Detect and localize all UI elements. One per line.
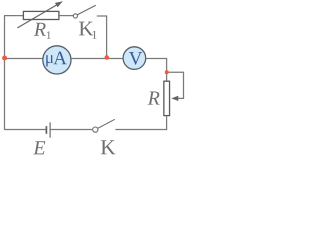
switch K terminal circle <box>93 127 98 132</box>
wire: rheostat wiper loop <box>167 72 184 98</box>
switch K lever <box>98 119 115 128</box>
wire: R1 box to switch K1 <box>60 15 74 17</box>
resistor R1 box <box>23 11 59 19</box>
wire: voltmeter to right corner, down to rheostat node <box>146 59 167 73</box>
battery E short plate <box>45 126 47 134</box>
wire: resistor R bottom to bottom-right corner and left to switch K <box>115 116 166 129</box>
wire: top from left corner to R1 box <box>4 15 23 17</box>
meter uA circle <box>43 46 71 74</box>
meter uA label <box>46 55 53 66</box>
label K <box>101 140 116 154</box>
label K1 <box>79 22 93 36</box>
label R <box>148 92 160 105</box>
rheostat wiper arrowhead <box>171 96 178 101</box>
wire: left vertical side <box>4 16 6 130</box>
node: left junction dot <box>2 56 7 61</box>
wire: battery to switch K <box>51 129 93 131</box>
wire: microammeter to voltmeter <box>71 58 123 60</box>
resistor R1 arrowhead <box>55 1 63 7</box>
wire: bottom-left from battery to left side <box>4 129 46 131</box>
meter V circle <box>123 47 146 70</box>
wire: left node to microammeter <box>4 58 43 60</box>
wire: switch K1 fixed contact to corner, down to junction <box>97 16 107 58</box>
resistor R box <box>164 81 170 115</box>
resistor R1 arrow (diagonal shaft) <box>17 5 57 28</box>
node: rheostat top node dot <box>165 70 169 74</box>
switch K1 lever <box>77 5 95 15</box>
battery E long plate <box>49 122 51 137</box>
meter V label <box>129 52 142 65</box>
label R1 <box>34 23 46 36</box>
switch K1 terminal circle <box>73 14 77 18</box>
wire: node to resistor R top <box>166 72 168 81</box>
label E <box>33 141 45 154</box>
node: junction dot below K1 <box>105 55 110 60</box>
